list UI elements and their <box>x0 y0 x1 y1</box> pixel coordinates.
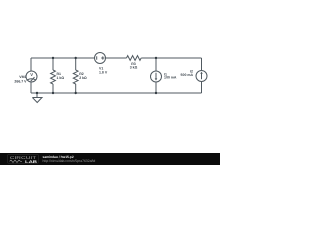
svg-text:http://circuitlab.com/c/5pra76: http://circuitlab.com/c/5pra7632a8d <box>43 159 96 163</box>
svg-text:3 kΩ: 3 kΩ <box>130 66 138 70</box>
svg-text:266.7 V: 266.7 V <box>14 79 27 83</box>
svg-text:100 mA: 100 mA <box>164 76 177 80</box>
svg-text:2 kΩ: 2 kΩ <box>79 76 87 80</box>
svg-text:VM1: VM1 <box>19 75 26 79</box>
svg-text:LAB: LAB <box>25 159 37 164</box>
svg-text:500 mA: 500 mA <box>181 73 194 77</box>
svg-text:1.8 V: 1.8 V <box>99 70 108 74</box>
svg-text:V: V <box>30 72 33 77</box>
svg-text:1 kΩ: 1 kΩ <box>57 76 65 80</box>
